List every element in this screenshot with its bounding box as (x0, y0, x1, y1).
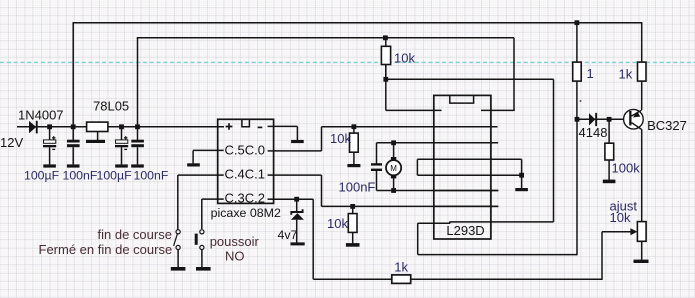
node cap4 / wireB junction (135, 124, 140, 129)
capacitor C1 100uF electrolytic (43, 127, 56, 165)
resistor R5 10k top (381, 37, 390, 80)
node wireA right junction (575, 20, 580, 25)
resistor R7 1k (638, 22, 647, 110)
node chip-right ground junction (519, 173, 524, 178)
regulator U2 78L05 (87, 122, 108, 131)
ground switch S2 (196, 267, 211, 271)
wire C.1 into chip (434, 205, 499, 207)
svg-text:4148: 4148 (579, 125, 608, 140)
wire base (577, 118, 629, 120)
wire 78L05 gnd pin (97, 132, 99, 141)
node wireB 10k junction (383, 35, 388, 40)
svg-text:1N4007: 1N4007 (18, 108, 64, 123)
wire motor bottom into chip (434, 190, 499, 192)
resistor R6 1 (573, 23, 582, 120)
svg-text:C.4C.1: C.4C.1 (225, 167, 265, 182)
ground R2 (347, 164, 360, 167)
svg-text:10k: 10k (610, 210, 631, 225)
ground pot (634, 260, 649, 263)
resistor R4 1k bottom (392, 275, 411, 284)
wire motor top into chip (434, 142, 498, 144)
wire C.1 net (273, 175, 498, 206)
wire base net segment into chip (418, 222, 451, 224)
picaxe right pin stubs (268, 126, 274, 199)
svg-text:10k: 10k (327, 216, 348, 231)
svg-text:NO: NO (225, 249, 245, 264)
node motor bottom (391, 188, 396, 193)
capacitor C4 100nF (131, 127, 144, 165)
wire C.4 to switch1 (178, 175, 218, 230)
ground zener (291, 242, 305, 245)
svg-text:100nF: 100nF (339, 180, 376, 195)
diode Z1 4v7 zener (291, 199, 304, 242)
wire vertical top-left (B) (137, 38, 139, 128)
ic U3 L293D body (434, 95, 491, 239)
diode D2 4148 (589, 113, 597, 126)
svg-text:C.3C.2: C.3C.2 (225, 191, 265, 206)
svg-text:10k: 10k (394, 51, 415, 66)
ground R3 (346, 243, 360, 247)
node zener junction (294, 197, 299, 202)
wire picaxe 0V pin (273, 126, 297, 140)
pot wiper arrowhead (630, 228, 637, 235)
potentiometer P1 ajust 10k (637, 222, 646, 242)
svg-text:C.5C.0: C.5C.0 (225, 143, 265, 158)
picaxe pin - mark (258, 126, 263, 128)
svg-text:poussoir: poussoir (210, 234, 260, 249)
diode D1 1N4007 (29, 121, 38, 134)
wire rail to L293D (322, 126, 498, 128)
ground switch S1 (171, 267, 186, 271)
L293D notch (450, 95, 474, 103)
switch S2 poussoir NO (195, 230, 204, 268)
ground C.5 (187, 163, 200, 166)
ground cap4 (131, 164, 144, 167)
svg-text:fin de course: fin de course (98, 227, 172, 242)
node cap3 junction (119, 124, 124, 129)
node 100k junction (607, 117, 612, 122)
resistor R8 100k (605, 119, 614, 180)
transistor Q1 BC327 (624, 109, 644, 129)
svg-text:100nF: 100nF (63, 169, 98, 183)
wire wireB down to chip (481, 38, 515, 111)
ground picaxe 0V (291, 140, 304, 143)
picaxe pin + mark (226, 123, 233, 130)
wire base net elbow down (418, 119, 577, 255)
wire C.2 net (273, 199, 392, 279)
node cap1 junction (47, 124, 52, 129)
svg-text:100µF: 100µF (97, 169, 133, 183)
wire base net right riser (553, 79, 555, 222)
ground cap1 (43, 164, 56, 167)
node base drive junction (575, 117, 580, 122)
node 10k pullup junction (352, 124, 357, 129)
svg-text:100k: 100k (612, 160, 641, 175)
wire vertical top-left (A) (72, 23, 74, 128)
node 10k pulldown junction (350, 204, 355, 209)
wire motor bottom line (377, 190, 499, 192)
wire C.3 to switch2 (202, 199, 218, 229)
wire C.0 up to rail (273, 127, 322, 151)
stray mark (580, 100, 582, 102)
wire enable line left (386, 65, 442, 111)
wire C.5 to ground (193, 150, 218, 163)
svg-text:12V: 12V (0, 135, 23, 150)
ground 78L05 (86, 140, 105, 143)
ground cap3 (115, 164, 128, 167)
ic U1 picaxe 08M2 body (218, 119, 274, 203)
wire top rail A (73, 22, 642, 24)
resistor R2 10k mid (350, 127, 359, 165)
capacitor C2 100nF (67, 127, 80, 165)
switch S1 fin de course (174, 230, 181, 268)
wire pot bottom (641, 241, 643, 259)
motor M1 (386, 143, 401, 191)
svg-text:10k: 10k (330, 131, 351, 146)
resistor R3 10k lower (348, 206, 357, 243)
svg-text:1k: 1k (619, 67, 633, 82)
picaxe left pin stubs (218, 150, 224, 199)
svg-text:Fermé en fin de course: Fermé en fin de course (39, 242, 173, 257)
svg-text:1k: 1k (394, 259, 408, 274)
node 10k-top bottom junction (383, 77, 388, 82)
wire +12V rail (17, 126, 224, 128)
svg-text:BC327: BC327 (647, 118, 687, 133)
wire chip loop upper (417, 159, 521, 188)
cyan dashed guide line (0, 61, 695, 63)
picaxe notch (242, 119, 250, 126)
wire 10k-top to right rail (386, 78, 554, 80)
svg-text:1: 1 (587, 66, 594, 81)
wire motor top line (377, 142, 499, 144)
ground R8 (603, 180, 616, 184)
capacitor C5 100nF motor (371, 143, 382, 191)
node motor top (391, 140, 396, 145)
svg-text:L293D: L293D (446, 223, 484, 238)
wire top rail B (137, 37, 514, 39)
svg-text:4v7: 4v7 (278, 228, 298, 242)
svg-text:100µF: 100µF (24, 169, 60, 183)
ground cap2 (67, 164, 80, 167)
svg-text:100nF: 100nF (134, 169, 169, 183)
wire base net segment to right (449, 222, 553, 223)
node wireA-left junction (71, 124, 76, 129)
svg-text:M: M (390, 164, 397, 173)
svg-text:78L05: 78L05 (93, 99, 129, 114)
wire collector to pot (641, 129, 643, 221)
wire 1k to pot wiper (411, 232, 634, 280)
svg-text:picaxe 08M2: picaxe 08M2 (211, 206, 281, 220)
wire rail into chip (434, 126, 498, 128)
capacitor C3 100uF electrolytic (115, 127, 128, 165)
ground L293D right (515, 188, 528, 191)
